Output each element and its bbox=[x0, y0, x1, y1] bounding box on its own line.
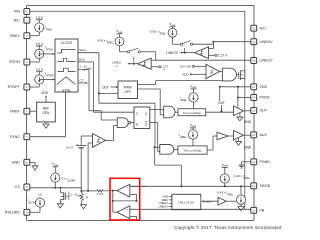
svg-text:CS: CS bbox=[38, 192, 42, 196]
svg-text:Turn on Delay: Turn on Delay bbox=[183, 149, 202, 153]
svg-text:OUT: OUT bbox=[102, 85, 109, 89]
svg-text:RTON: RTON bbox=[9, 60, 20, 64]
svg-text:N/C: N/C bbox=[260, 26, 267, 30]
svg-text:VDD: VDD bbox=[260, 85, 268, 89]
svg-text:0.5 V: 0.5 V bbox=[66, 146, 73, 150]
svg-text:14: 14 bbox=[252, 133, 256, 137]
svg-text:12: 12 bbox=[252, 184, 256, 188]
svg-text:Start: Start bbox=[79, 48, 86, 52]
svg-text:SYNC: SYNC bbox=[10, 135, 21, 139]
svg-text:V: V bbox=[115, 64, 117, 68]
svg-text:LINEUV: LINEUV bbox=[260, 59, 274, 63]
svg-text:FB: FB bbox=[260, 209, 265, 213]
svg-text:17: 17 bbox=[252, 85, 256, 89]
svg-text:19: 19 bbox=[252, 40, 256, 44]
svg-text:18: 18 bbox=[252, 59, 256, 63]
svg-text:2.5 V: 2.5 V bbox=[36, 16, 44, 20]
svg-text:GEN: GEN bbox=[43, 111, 51, 115]
svg-text:S: S bbox=[136, 111, 138, 115]
svg-text:PGND: PGND bbox=[260, 160, 271, 164]
svg-text:SYNC: SYNC bbox=[62, 88, 72, 92]
svg-text:RTOFF: RTOFF bbox=[8, 85, 21, 89]
svg-text:12V / 8V: 12V / 8V bbox=[179, 64, 191, 68]
svg-text:15: 15 bbox=[252, 109, 256, 113]
svg-text:AUX: AUX bbox=[260, 133, 268, 137]
svg-text:RSLOPE: RSLOPE bbox=[5, 211, 21, 215]
svg-text:VDD: VDD bbox=[41, 91, 48, 95]
svg-text:RDEL: RDEL bbox=[10, 34, 20, 38]
svg-text:End: End bbox=[79, 58, 85, 62]
svg-text:1.27 V: 1.27 V bbox=[218, 54, 228, 58]
svg-text:GND: GND bbox=[244, 146, 252, 150]
svg-text:LINEOV: LINEOV bbox=[158, 205, 168, 209]
svg-text:OUT: OUT bbox=[260, 109, 268, 113]
svg-text:OFF: OFF bbox=[125, 90, 131, 94]
svg-text:20: 20 bbox=[252, 26, 256, 30]
svg-text:16: 16 bbox=[252, 96, 256, 100]
svg-text:VIN: VIN bbox=[14, 10, 20, 14]
svg-text:PVDD: PVDD bbox=[260, 96, 270, 100]
svg-text:Copyright © 2017, Texas Instru: Copyright © 2017, Texas Instruments Inco… bbox=[174, 224, 282, 230]
svg-text:R: R bbox=[86, 195, 88, 199]
svg-text:Turn on Delay: Turn on Delay bbox=[183, 111, 202, 115]
svg-text:VDD: VDD bbox=[182, 72, 189, 76]
svg-text:OUT: OUT bbox=[218, 101, 225, 105]
svg-text:UVLO & SS: UVLO & SS bbox=[178, 200, 194, 204]
svg-text:GND: GND bbox=[244, 120, 252, 124]
svg-text:GND: GND bbox=[12, 161, 21, 165]
svg-text:VREF: VREF bbox=[10, 109, 21, 113]
svg-text:4.4 R: 4.4 R bbox=[97, 192, 104, 196]
svg-text:CLOCK: CLOCK bbox=[61, 41, 73, 45]
svg-text:CT: CT bbox=[80, 79, 84, 83]
svg-text:LINEOV: LINEOV bbox=[260, 40, 274, 44]
svg-text:V: V bbox=[163, 67, 165, 71]
svg-text:CS: CS bbox=[15, 185, 21, 189]
svg-text:13: 13 bbox=[252, 160, 256, 164]
svg-text:10: 10 bbox=[25, 210, 29, 214]
svg-text:LINEOV: LINEOV bbox=[166, 51, 179, 55]
svg-text:SS/SD: SS/SD bbox=[260, 184, 271, 188]
svg-text:11: 11 bbox=[252, 208, 255, 212]
svg-text:N/C: N/C bbox=[13, 18, 20, 22]
